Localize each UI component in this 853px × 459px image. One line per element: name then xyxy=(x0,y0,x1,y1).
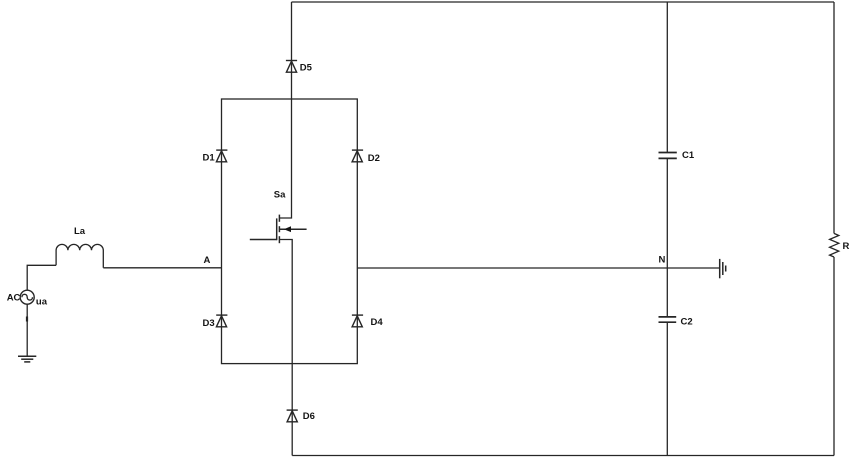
wire center branch upper (D5 / drain) xyxy=(279,2,291,218)
transistor Sa (MOSFET) xyxy=(250,215,307,244)
diode D5 xyxy=(286,61,297,73)
diode D6 xyxy=(287,410,298,422)
wire right branch lower xyxy=(833,257,835,456)
wire node N horizontal xyxy=(357,267,719,269)
diode D2 xyxy=(352,150,363,162)
ground xyxy=(18,356,36,362)
svg-text:C1: C1 xyxy=(682,150,695,161)
AC source ua xyxy=(20,290,34,304)
wire capacitor branch middle xyxy=(666,159,668,316)
diode D3 xyxy=(216,315,227,327)
svg-text:D1: D1 xyxy=(203,152,216,163)
svg-text:C2: C2 xyxy=(681,317,693,328)
wire center branch lower (source / D6) xyxy=(279,240,292,456)
wire capacitor branch upper xyxy=(666,2,668,152)
svg-text:D4: D4 xyxy=(371,317,384,328)
capacitor C2 xyxy=(659,317,677,322)
wire AC source to inductor xyxy=(27,265,56,290)
diode D4 xyxy=(352,315,363,327)
wire joint tick on AC lead xyxy=(26,317,28,322)
svg-text:A: A xyxy=(204,255,211,266)
svg-text:Sa: Sa xyxy=(274,190,286,201)
wire bridge frame xyxy=(222,99,358,364)
svg-text:ua: ua xyxy=(36,297,48,308)
svg-text:D3: D3 xyxy=(203,318,215,329)
svg-text:La: La xyxy=(74,226,86,237)
wire top rail xyxy=(292,1,835,3)
diode D1 xyxy=(216,150,227,162)
svg-text:R: R xyxy=(843,241,850,252)
capacitor C1 xyxy=(659,153,677,159)
svg-text:D5: D5 xyxy=(300,62,313,73)
inductor La xyxy=(56,244,103,267)
resistor R xyxy=(830,233,839,257)
svg-text:D2: D2 xyxy=(368,153,380,164)
svg-text:N: N xyxy=(659,254,666,265)
svg-text:AC: AC xyxy=(7,293,21,304)
svg-text:D6: D6 xyxy=(303,411,315,422)
ground (node N, rotated) xyxy=(720,259,726,278)
wire AC source to ground xyxy=(26,304,28,356)
wire right branch upper xyxy=(833,2,835,233)
wire capacitor branch lower xyxy=(666,323,668,456)
wire bottom rail xyxy=(292,455,834,457)
wire inductor to node A xyxy=(103,267,221,269)
